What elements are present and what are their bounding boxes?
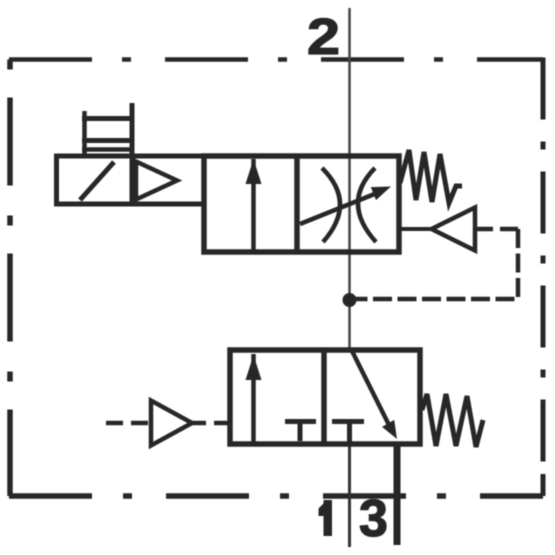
svg-text:3: 3	[359, 490, 388, 548]
svg-text:2: 2	[307, 8, 340, 65]
